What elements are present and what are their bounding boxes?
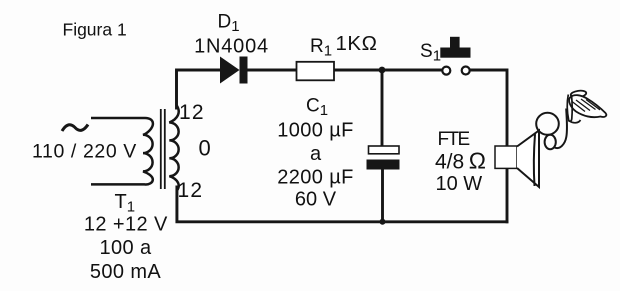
sound doodle: scribble body [569,95,606,117]
node A (junction of R1, C1, S1 on top rail) [379,67,386,74]
wire: node A to switch S1 left contact [382,69,442,72]
svg-text:D1: D1 [218,12,240,36]
svg-text:10 W: 10 W [436,173,483,195]
node B (junction of C1 on bottom rail) [380,219,386,225]
sound doodle: top ellipse of scribble [570,90,586,99]
sound doodle: small lower loop [545,135,556,150]
diode D1 [220,57,248,84]
svg-text:110 / 220 V: 110 / 220 V [32,141,137,163]
svg-text:0: 0 [199,136,211,161]
sound doodle: hatch strokes [572,99,600,112]
sound doodle: left hairpin stroke [567,95,572,122]
sound doodle: large upper loop [536,113,559,135]
wire: secondary top to top-left corner to diode anode [177,70,222,108]
resistor R1 [297,62,335,81]
switch S1 right contact [462,67,470,75]
wire: capacitor branch upper (node A down to C1 plate) [381,70,384,147]
svg-text:T1: T1 [115,191,136,216]
svg-text:12: 12 [178,179,204,202]
svg-text:100 a: 100 a [99,237,152,259]
svg-text:1KΩ: 1KΩ [336,32,378,55]
svg-text:60 V: 60 V [295,189,337,211]
transformer T1 secondary winding [169,70,178,222]
capacitor C1 top plate [369,146,400,154]
svg-text:C1: C1 [306,96,328,120]
sound doodle: bottom curl [569,120,581,123]
transformer T1 primary winding [91,118,153,185]
switch S1 plunger button [440,37,470,58]
switch S1 left contact [442,67,450,75]
wire: diode cathode to resistor R1 [247,69,297,72]
svg-text:S1: S1 [420,41,441,65]
wire: switch S1 right contact to top-right corner and down right side [471,70,508,222]
speaker FTE cone [517,131,539,188]
svg-text:Figura 1: Figura 1 [63,20,127,40]
wire: secondary bottom to bottom-left corner and bottom rail to right corner [177,187,507,222]
svg-text:a: a [310,143,322,165]
sound doodle: tail descending over cone [534,134,535,186]
speaker FTE driver square [495,146,517,168]
svg-text:2200 µF: 2200 µF [277,167,354,189]
svg-text:12: 12 [179,101,205,124]
svg-text:12 +12 V: 12 +12 V [84,214,168,236]
svg-text:1N4004: 1N4004 [194,36,269,58]
svg-text:4/8Ω: 4/8Ω [435,148,486,174]
wire: capacitor branch lower (C1 plate down to node B) [381,168,384,222]
transformer T1 core [160,109,162,189]
capacitor C1 bottom plate [367,160,400,170]
wire: resistor R1 to node A [334,69,382,72]
svg-text:R1: R1 [310,36,332,60]
svg-text:500 mA: 500 mA [90,261,162,283]
sound doodle: rising tail to scribble [555,109,568,149]
AC tilde symbol [62,125,88,132]
svg-text:1000 µF: 1000 µF [277,120,354,142]
svg-text:FTE: FTE [438,129,470,150]
